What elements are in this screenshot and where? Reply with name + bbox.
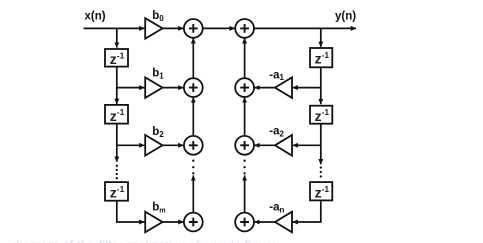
gain bm	[145, 212, 162, 233]
wire gain b2 to summer S3	[163, 144, 184, 146]
wire input to gain b0	[84, 27, 145, 29]
summer S1	[184, 19, 203, 38]
wire summer S6 to summer S5	[244, 38, 246, 77]
summer S7	[235, 136, 254, 155]
summer S3	[184, 136, 203, 155]
svg-text:z-1: z-1	[110, 107, 125, 124]
wire tap node to gain b1	[117, 87, 145, 89]
delay block Z1	[105, 49, 128, 67]
ellipsis dots right chain	[320, 166, 322, 177]
wire gain a1 to summer S6	[254, 87, 275, 89]
wire summer S1 to summer S5	[203, 27, 235, 29]
svg-text:diagram of the filter realizat: diagram of the filter realization shown …	[12, 238, 277, 243]
wire delay Z5 down with arrow	[320, 125, 322, 165]
svg-text:z-1: z-1	[315, 107, 330, 124]
svg-text:x(n): x(n)	[85, 10, 106, 22]
ellipsis dots summer column 1	[192, 160, 194, 175]
wire tap node to gain a1	[293, 87, 321, 89]
gain b1	[145, 77, 162, 98]
wire node output to delay Z4	[320, 28, 322, 47]
wire summer S2 to summer S1	[192, 38, 194, 77]
wire gain b1 to summer S2	[163, 87, 184, 89]
delay block Z5	[310, 106, 332, 124]
wire delay Z3 to gain bm	[117, 201, 145, 222]
delay block Z4	[310, 48, 332, 67]
wire summer S7 to summer S6	[244, 97, 246, 135]
wire delay Z1 to delay Z2	[116, 67, 118, 104]
wire summer S4 to summer S3	[192, 175, 194, 212]
svg-text:-a2: -a2	[269, 126, 284, 139]
summer S8	[235, 213, 254, 232]
svg-text:z-1: z-1	[110, 50, 125, 67]
summer S5	[235, 19, 254, 38]
svg-text:z-1: z-1	[315, 50, 330, 67]
wire gain bm to summer S4	[163, 221, 184, 223]
gain b2	[145, 135, 162, 156]
svg-text:-an: -an	[269, 202, 284, 215]
svg-text:b1: b1	[152, 68, 164, 81]
wire gain an to summer S8	[254, 221, 275, 223]
svg-text:-a1: -a1	[269, 69, 284, 82]
summer S4	[184, 213, 203, 232]
gain a2	[275, 135, 292, 156]
wire node input to delay Z1	[116, 28, 118, 47]
wire delay Z2 down with arrow	[116, 125, 118, 162]
summer S6	[235, 78, 254, 97]
wire delay Z4 to delay Z5	[320, 68, 322, 104]
svg-text:z-1: z-1	[315, 184, 330, 201]
svg-text:bm: bm	[152, 202, 165, 215]
svg-text:b0: b0	[152, 10, 164, 23]
delay block Z2	[105, 105, 128, 124]
gain a1	[275, 77, 292, 98]
wire tap node to gain b2	[117, 144, 145, 146]
gain b0	[145, 18, 162, 39]
wire gain a2 to summer S7	[254, 144, 275, 146]
wire tap node to gain a2	[293, 144, 321, 146]
ellipsis dots left chain	[116, 165, 118, 180]
svg-text:y(n): y(n)	[335, 11, 356, 23]
summer S2	[184, 78, 203, 97]
svg-text:z-1: z-1	[110, 184, 125, 201]
delay block Z3	[105, 182, 128, 201]
svg-text:b2: b2	[152, 126, 164, 139]
ellipsis dots summer column 2	[243, 160, 245, 175]
delay block Z6	[310, 182, 332, 200]
wire gain b0 to summer S1	[163, 27, 184, 29]
wire summer S5 to output	[254, 27, 356, 29]
wire summer S3 to summer S2	[192, 97, 194, 135]
wire summer S8 to summer S7	[244, 175, 246, 212]
wire delay Z6 to gain an	[293, 201, 321, 222]
gain an	[275, 212, 292, 233]
